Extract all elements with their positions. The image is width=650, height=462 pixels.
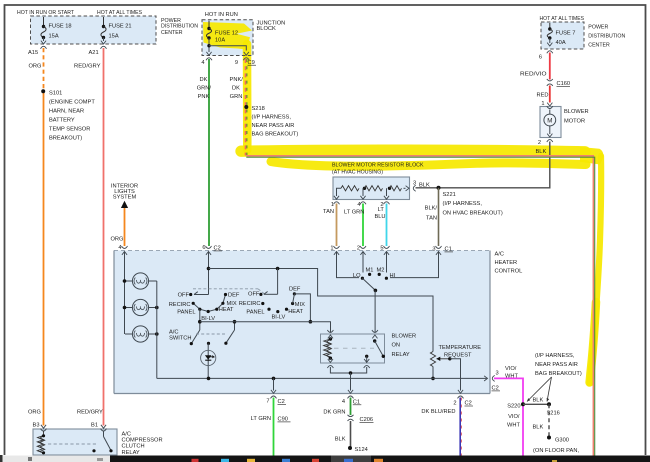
a/c indicator LED [207,342,210,345]
svg-text:ON HVAC BREAKOUT): ON HVAC BREAKOUT) [443,210,503,216]
svg-text:GRN/: GRN/ [197,86,212,92]
junction block dashed border [202,20,253,56]
svg-text:BLOCK: BLOCK [257,26,276,32]
compressor relay coil [37,431,43,453]
svg-text:RELAY: RELAY [392,352,410,358]
pot wiper arrow [437,358,450,360]
A/C heater control box [114,251,490,394]
svg-text:DEF: DEF [228,292,240,298]
highlighter vertical stroke over pnk/dk grn wire [243,44,252,150]
svg-text:TEMP SENSOR: TEMP SENSOR [49,127,90,133]
wire DK BLU/RED [459,398,461,456]
wire PNK/DK GRN horizontal + right vertical run [246,156,593,456]
svg-text:HI: HI [390,273,396,279]
svg-text:NEAR PASS AIR: NEAR PASS AIR [535,362,578,368]
interior lights system arrow [121,201,128,208]
svg-text:3: 3 [413,181,416,187]
svg-text:6: 6 [202,245,205,251]
svg-text:ORG: ORG [29,64,42,70]
svg-text:(ENGINE COMPT: (ENGINE COMPT [49,100,95,106]
svg-text:PNK/: PNK/ [230,77,244,83]
splice S216 [547,402,551,406]
svg-text:A/C: A/C [495,252,504,258]
svg-text:RED/VIO: RED/VIO [520,72,547,78]
wire BLK to S124 [350,421,352,448]
fuse 7 [549,23,551,29]
svg-text:M: M [547,117,552,124]
svg-text:LT: LT [378,207,385,213]
svg-text:MIX: MIX [295,302,305,308]
svg-text:RED/GRY: RED/GRY [74,64,101,70]
pin 9 C9 of junction block [243,58,249,60]
power distribution center box left fill [31,16,157,44]
wire RED to blower motor [549,86,551,103]
svg-text:A15: A15 [28,50,38,56]
svg-text:7: 7 [266,399,269,405]
pin 6 C2 top [206,246,212,248]
svg-text:HEAT: HEAT [219,307,234,313]
svg-text:BLK: BLK [335,437,346,443]
svg-text:ORG: ORG [28,410,41,416]
svg-text:LO: LO [353,273,361,279]
svg-text:ON: ON [392,343,401,349]
svg-text:POWER: POWER [588,25,608,31]
junction block internal wire to pin 9 [208,38,210,52]
svg-text:RECIRC: RECIRC [239,301,261,307]
svg-text:9: 9 [235,60,238,66]
fan switch LO contact feed from pin 1 [337,252,360,278]
wire ORG from A15 (dashed above S101) [43,48,45,91]
svg-text:S101: S101 [49,91,62,97]
ground G300 [547,436,551,440]
pin 3 C1 top (blk/tan) [436,246,442,248]
wire BLK resistor block to S221 [416,187,439,189]
wire VIO/WHT from pin 3 C2 [494,378,523,455]
svg-text:HOT IN RUN: HOT IN RUN [205,12,238,18]
relay switch [373,339,376,342]
wire LT BLU [386,204,388,247]
svg-text:VIO/: VIO/ [505,366,517,372]
pin 6 of right PDC [547,51,553,53]
svg-text:CLUTCH: CLUTCH [122,444,145,450]
fuse 18 [43,17,45,27]
svg-text:BLK: BLK [533,398,544,404]
svg-text:4: 4 [342,399,345,405]
svg-text:FUSE 21: FUSE 21 [109,24,132,30]
svg-text:BAG BREAKOUT): BAG BREAKOUT) [252,132,299,138]
svg-text:DISTRIBUTION: DISTRIBUTION [161,24,198,30]
mode switch deck 2 contacts [259,293,262,296]
svg-text:1: 1 [331,202,334,208]
svg-text:S124: S124 [355,447,368,453]
pin B1 [101,425,106,428]
fan switch M1 stub from pin 2 [362,252,364,273]
mode switch deck 1 contacts [189,293,192,296]
power distribution center (right) dashed border [541,22,584,49]
svg-text:5: 5 [380,246,383,252]
svg-text:3: 3 [496,371,499,377]
wire DK GRN/PNK from junction block pin 4 [208,59,210,246]
svg-text:BI-LV: BI-LV [272,314,286,320]
pin A15 [41,46,47,48]
svg-text:BLK/: BLK/ [425,206,438,212]
svg-text:M2: M2 [377,268,385,274]
svg-text:CENTER: CENTER [588,43,610,49]
svg-text:DK GRN: DK GRN [323,410,345,416]
mode switch deck 2 wiper [264,293,278,295]
wire TAN [336,204,338,247]
wire LT GRN (resistor to control) [362,204,364,247]
pin 2 C2 bottom [458,390,463,393]
temperature request potentiometer [430,352,435,367]
pin 5 top (lt blu) [384,246,390,248]
A/C compressor clutch relay box [33,429,117,455]
svg-text:A21: A21 [89,50,99,56]
lamp return bus [156,281,158,378]
fan switch M2 stub from pin 5 [386,252,388,273]
wire RED/VIO from fuse 7 [549,53,551,80]
svg-text:FUSE 18: FUSE 18 [49,24,72,30]
svg-text:BLU: BLU [374,214,385,220]
svg-text:OFF: OFF [178,292,190,298]
svg-text:DISTRIBUTION: DISTRIBUTION [588,34,625,40]
splice S220 [521,402,525,406]
wire BLK S220 to S216 [523,403,549,405]
wire BLK S216 to G300 (dashed) [548,404,550,437]
pin 1 top (tan) [334,246,340,248]
svg-text:GRN: GRN [230,94,243,100]
svg-text:RECIRC: RECIRC [169,302,191,308]
pin 3 of resistor block [406,186,409,191]
fan switch HI contact feed from pin 3 [390,252,439,278]
lamp feed wire from pin 4 [124,252,126,334]
feed branch to deck 2 and temp request [209,269,434,352]
svg-text:(I/P HARNESS,: (I/P HARNESS, [535,353,575,359]
svg-text:TAN: TAN [323,209,334,215]
svg-text:SYSTEM: SYSTEM [113,194,137,200]
svg-text:HOT AT ALL TIMES: HOT AT ALL TIMES [540,16,585,22]
svg-text:15A: 15A [49,34,59,40]
pin 2 of blower motor [547,140,553,142]
svg-text:(AT HVAC HOUSING): (AT HVAC HOUSING) [332,169,383,175]
svg-text:BLOWER: BLOWER [564,109,589,115]
svg-text:15A: 15A [109,34,119,40]
feed wire from pin 6 [208,252,210,295]
svg-text:BREAKOUT): BREAKOUT) [49,136,82,142]
wire ORG to interior lights [124,208,126,246]
svg-text:HEAT: HEAT [288,309,303,315]
resistor element 2 [363,187,366,190]
svg-text:4: 4 [201,60,204,66]
pin 4 of junction block [206,58,212,60]
highlighter blob over fuse 12 [203,22,252,50]
svg-text:HOT AT ALL TIMES: HOT AT ALL TIMES [97,10,142,16]
svg-text:S218: S218 [252,106,265,112]
svg-text:40A: 40A [556,40,566,46]
pin 4 top (org) [122,246,128,248]
blower on relay box [321,334,385,363]
mode switch deck 1 wiper [194,294,209,296]
svg-text:PANEL: PANEL [177,309,195,315]
svg-text:BATTERY: BATTERY [49,118,75,124]
power distribution center box right fill [541,22,584,49]
svg-text:BAG BREAKOUT): BAG BREAKOUT) [535,371,582,377]
A/C switch linkage dashes [196,333,226,335]
resistor element 1 [337,188,342,196]
svg-text:ORG: ORG [111,237,124,243]
svg-text:10A: 10A [215,38,225,44]
wire PNK/DK GRN from junction block pin 9 (highlighted) [245,59,247,156]
svg-text:PNK: PNK [198,94,210,100]
svg-text:SWITCH: SWITCH [169,335,191,341]
wire BLK/TAN from S221 to A/C heater control pin 3 [438,188,440,246]
svg-text:CONTROL: CONTROL [495,269,523,275]
svg-text:2: 2 [453,401,456,407]
highlighter corner blob [580,147,603,165]
svg-text:BLK: BLK [533,425,544,431]
svg-text:G300: G300 [555,438,569,444]
svg-text:S220: S220 [507,403,520,409]
illumination lamp 1 [132,273,148,289]
fuse 21 [103,17,105,27]
svg-text:1: 1 [330,246,333,252]
svg-text:LT GRN: LT GRN [251,416,271,422]
svg-text:HOT IN RUN OR START: HOT IN RUN OR START [17,10,74,16]
svg-text:CENTER: CENTER [161,30,183,36]
svg-text:HARN, NEAR: HARN, NEAR [49,109,84,115]
compressor relay switch [103,431,105,437]
svg-text:TAN: TAN [426,215,437,221]
pin 4 C1 bottom [348,390,353,393]
splice S101 [41,89,45,93]
highlighter right vertical stroke [590,156,601,383]
svg-text:S221: S221 [443,192,456,198]
splice S124 [348,446,352,450]
svg-text:(I/P HARNESS,: (I/P HARNESS, [252,115,292,121]
pin 3 C2 right [484,376,487,381]
svg-text:DK: DK [232,86,240,92]
svg-text:2: 2 [538,140,541,146]
svg-text:4: 4 [118,245,121,251]
splice S218 [244,105,248,109]
svg-text:BLOWER: BLOWER [392,333,417,339]
svg-text:M1: M1 [366,268,374,274]
svg-text:3: 3 [432,247,435,253]
svg-text:DK: DK [200,77,208,83]
relay output join to pin 4 C1 [330,367,366,373]
highlighter horizontal band lower swipe [271,162,586,167]
fuse 12 [208,21,210,29]
svg-text:RED: RED [537,93,549,99]
highlighter horizontal band upper stroke [241,150,585,152]
internal ground/feed bus [157,377,487,379]
junction block fill [202,20,253,56]
A/C switch arm 1 [191,330,200,344]
deck 1 panel contact drop [199,309,201,330]
illumination lamp 2 [132,299,148,315]
svg-text:4: 4 [357,202,360,208]
pin B3 [41,425,46,428]
svg-text:LT GRN: LT GRN [344,209,364,215]
svg-text:MOTOR: MOTOR [564,118,585,124]
svg-text:COMPRESSOR: COMPRESSOR [122,438,163,444]
svg-text:OFF: OFF [248,292,260,298]
svg-text:BLOWER MOTOR RESISTOR BLOCK: BLOWER MOTOR RESISTOR BLOCK [332,163,424,169]
wire LT GRN C90 to bottom [273,398,275,456]
svg-text:RED/GRY: RED/GRY [77,410,103,416]
svg-text:MIX: MIX [227,301,237,307]
resistor element 3 [388,187,391,190]
linkage dashes deck1-deck2 [193,288,258,290]
pin A21 [101,46,107,48]
svg-text:FUSE 12: FUSE 12 [215,30,238,36]
splice S221 [437,186,441,190]
svg-text:6: 6 [539,55,542,61]
svg-text:NEAR PASS AIR: NEAR PASS AIR [252,123,295,129]
wire DK GRN from pin 4 C1 [350,398,352,416]
svg-text:BI-LV: BI-LV [201,316,215,322]
taskbar [0,456,650,462]
svg-text:VIO/: VIO/ [508,414,520,420]
svg-text:PANEL: PANEL [246,310,264,316]
switch output bus [200,322,331,333]
svg-text:FUSE 7: FUSE 7 [556,31,576,37]
power distribution center (left) dashed border [31,16,157,44]
svg-text:(I/P HARNESS,: (I/P HARNESS, [443,201,483,207]
relay linkage dashes [334,347,374,349]
svg-text:BLK: BLK [536,149,547,155]
deck 2 def contact wire [294,294,310,322]
svg-text:2: 2 [357,246,360,252]
compressor relay linkage dashes [48,443,98,445]
svg-text:TEMPERATURE: TEMPERATURE [439,345,482,351]
illumination lamp 3 [132,326,148,342]
resistor block bottom pins 1,4,2 [334,196,339,199]
pin 2 top (lt grn) [360,246,366,248]
svg-text:DK BLU/RED: DK BLU/RED [421,409,455,415]
svg-text:DEF: DEF [289,287,301,293]
blower motor resistor block box [333,177,410,200]
connector C206 [348,415,354,417]
pin 7 C2 bottom [273,378,275,390]
svg-text:WHT: WHT [507,423,520,429]
connector C160 [547,79,553,81]
svg-text:B1: B1 [91,423,98,429]
svg-text:RELAY: RELAY [122,450,140,456]
svg-text:A/C: A/C [122,432,131,438]
fan switch wiper [362,278,375,290]
A/C switch arm 2 [234,322,236,330]
svg-text:(ON FLOOR PAN,: (ON FLOOR PAN, [533,448,579,454]
svg-text:B3: B3 [33,423,40,429]
wire RED/GRY from A21 [103,48,105,426]
wire BLK from blower motor to S221 [439,142,550,188]
relay coil [324,339,331,358]
svg-text:WHT: WHT [505,373,518,379]
blower motor [540,107,561,138]
svg-text:REQUEST: REQUEST [444,353,472,359]
svg-text:HEATER: HEATER [495,260,518,266]
